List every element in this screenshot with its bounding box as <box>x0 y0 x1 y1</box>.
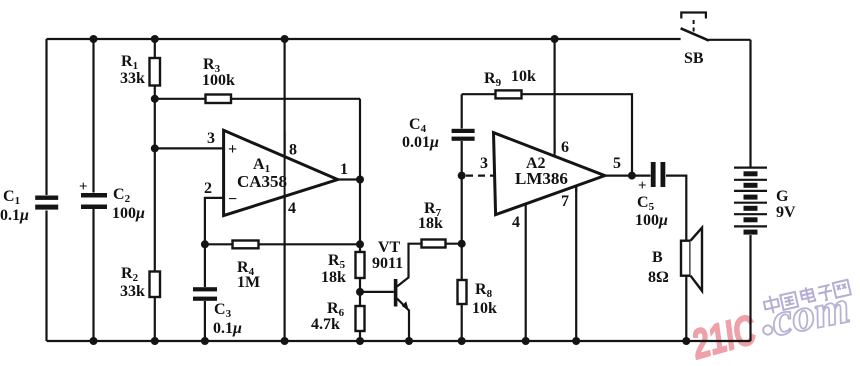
switch SB dashed stem <box>693 20 695 33</box>
svg-text:SB: SB <box>684 50 704 67</box>
node C4 pin3 <box>458 172 466 180</box>
svg-text:+: + <box>638 178 647 194</box>
node bottom rail C3 <box>201 337 209 345</box>
wire battery branch lower <box>749 235 751 341</box>
resistor R7 18k body <box>422 240 446 248</box>
svg-text:LM386: LM386 <box>515 169 568 188</box>
speaker B driver rectangle <box>681 241 691 276</box>
wire battery branch upper <box>749 40 751 167</box>
switch SB lever <box>681 28 709 40</box>
wire pin3 A2 dashed <box>466 175 494 177</box>
svg-text:1M: 1M <box>237 274 260 291</box>
node bottom rail C2 <box>90 337 98 345</box>
svg-text:100k: 100k <box>202 72 235 89</box>
node bottom rail R2 <box>151 337 159 345</box>
wire R3 feedback vertical to output <box>359 99 361 180</box>
node bottom rail pin7 A2 <box>572 337 580 345</box>
svg-text:VT: VT <box>378 239 401 256</box>
transistor Q1 VT 9011 base bar <box>394 279 398 307</box>
transistor emitter arrow <box>402 301 409 310</box>
svg-text:G: G <box>776 188 789 205</box>
capacitor C4 plates <box>452 129 475 133</box>
svg-text:R2: R2 <box>121 265 139 284</box>
svg-text:B: B <box>652 249 663 266</box>
node top rail pin6 line <box>551 35 559 43</box>
svg-text:0.01μ: 0.01μ <box>402 134 439 151</box>
svg-text:C5: C5 <box>637 194 655 213</box>
wire R1 R2 branch vertical <box>154 39 156 341</box>
capacitor C3 plates <box>193 287 217 291</box>
char 电 <box>800 286 816 303</box>
svg-text:9011: 9011 <box>372 255 403 272</box>
wire C5 to speaker <box>666 176 686 241</box>
node A2 output <box>628 172 636 180</box>
wire pin6 inside A2 <box>554 140 556 156</box>
svg-text:C1: C1 <box>3 188 20 207</box>
svg-text:4: 4 <box>288 200 296 217</box>
svg-text:1: 1 <box>340 161 348 178</box>
char 子 <box>817 285 834 302</box>
resistor R3 100k body <box>206 95 232 104</box>
capacitor C2 plates <box>81 193 107 198</box>
node R4 left <box>201 240 209 248</box>
node pin3 input <box>151 144 159 152</box>
svg-text:6: 6 <box>561 139 569 156</box>
svg-text:−: − <box>228 191 237 208</box>
node bottom rail pin4 A2 <box>522 337 530 345</box>
node top rail C2 <box>90 35 98 43</box>
char 中 <box>763 294 781 315</box>
svg-text:100μ: 100μ <box>635 212 668 229</box>
svg-text:8: 8 <box>289 142 297 159</box>
node R7 R8 C4 <box>458 240 466 248</box>
svg-text:7: 7 <box>561 193 569 210</box>
svg-text:R8: R8 <box>475 281 493 300</box>
node bottom rail R8 <box>458 337 466 345</box>
wire bottom rail <box>47 340 751 342</box>
wire C2 branch lower <box>92 209 94 341</box>
svg-text:R9: R9 <box>484 70 502 89</box>
node A1 output <box>356 176 364 184</box>
svg-text:10k: 10k <box>511 68 536 85</box>
wire A1 output to R5 R6 vertical <box>338 180 360 342</box>
svg-text:CA358: CA358 <box>237 172 287 191</box>
node base VT <box>356 288 364 296</box>
wire pin3 input A1 <box>155 147 224 149</box>
svg-text:2: 2 <box>204 180 212 197</box>
speaker B cone <box>691 228 703 291</box>
capacitor C5 plates <box>651 162 656 187</box>
resistor R1 33k body <box>150 58 161 86</box>
wire pin7 A2 to bottom rail <box>575 187 577 342</box>
node R1 bottom R3 <box>151 95 159 103</box>
wire top rail left of switch <box>47 38 681 40</box>
wire top rail right of switch <box>709 39 751 41</box>
wire C4 pin3 R8 vertical <box>461 94 463 341</box>
resistor R4 1M body <box>233 241 259 249</box>
op-amp U1 A1 CA358 triangle <box>224 130 338 215</box>
svg-text:33k: 33k <box>120 283 145 300</box>
op-amp U2 A2 LM386 triangle <box>494 133 605 215</box>
switch SB button cap <box>681 13 706 19</box>
wire R9 line and vertical to output <box>462 94 632 175</box>
svg-text:18k: 18k <box>321 269 346 286</box>
node bottom rail emitter <box>405 337 413 345</box>
resistor R2 33k body <box>150 272 161 298</box>
wire base of VT <box>360 291 394 293</box>
svg-text:3: 3 <box>480 155 488 172</box>
wire C3 to bottom rail <box>204 301 206 341</box>
wire pin4 A2 to bottom rail <box>525 205 527 342</box>
wire pin8 pin4 through A1 <box>284 132 286 214</box>
svg-text:100μ: 100μ <box>112 205 145 222</box>
watermark chinese text 中国电子网 (hand drawn) <box>763 278 851 315</box>
wire pin2 branch <box>205 198 224 287</box>
svg-text:C2: C2 <box>113 186 131 205</box>
svg-text:10k: 10k <box>472 300 497 317</box>
svg-text:3: 3 <box>207 130 215 147</box>
capacitor C1 plates <box>35 196 58 200</box>
svg-text:4.7k: 4.7k <box>311 316 340 333</box>
svg-text:0.1μ: 0.1μ <box>213 320 242 337</box>
node R4 right <box>356 240 364 248</box>
node bottom rail speaker <box>682 337 690 345</box>
battery G cell long plates <box>734 168 767 227</box>
watermark .com period <box>762 325 773 336</box>
char 国 <box>780 292 798 310</box>
char 网 <box>833 280 851 298</box>
wire A1 power pin8 pin4 vertical <box>284 39 286 341</box>
svg-text:C4: C4 <box>409 116 427 135</box>
svg-text:4: 4 <box>512 214 520 231</box>
wire pin6 A2 from top rail <box>553 39 555 153</box>
svg-text:C3: C3 <box>214 301 232 320</box>
node top rail R1 <box>151 35 159 43</box>
battery G cell short thick plates <box>744 171 758 234</box>
wire collector vertical and R7 line <box>397 244 462 287</box>
svg-text:5: 5 <box>613 155 621 172</box>
svg-text:9V: 9V <box>776 204 796 221</box>
resistor R9 10k body <box>496 90 522 98</box>
svg-text:+: + <box>228 141 237 158</box>
resistor R6 4.7k body <box>356 306 365 331</box>
svg-text:18k: 18k <box>418 215 443 232</box>
wire C2 branch upper <box>92 39 94 193</box>
wire pin7 inside A2 <box>575 187 577 193</box>
node bottom rail R6 <box>356 337 364 345</box>
node top rail pin8 line <box>281 35 289 43</box>
svg-text:com: com <box>767 281 853 346</box>
watermark .com letters <box>767 281 853 346</box>
wire A2 output to C5 <box>605 175 651 177</box>
resistor R8 10k body <box>458 280 467 304</box>
wire speaker to bottom rail <box>685 276 687 341</box>
wire left vertical lower (C1 to bottom rail) <box>45 211 47 342</box>
wire R3 feedback horizontal <box>155 98 360 100</box>
node bottom rail pin4 A1 <box>281 337 289 345</box>
svg-text:33k: 33k <box>120 70 145 87</box>
watermark 21IC <box>686 305 761 366</box>
wire left vertical upper (to C1) <box>45 39 47 195</box>
svg-text:8Ω: 8Ω <box>648 269 669 286</box>
svg-text:+: + <box>79 179 88 195</box>
wire R4 line <box>205 243 360 245</box>
svg-text:0.1μ: 0.1μ <box>0 207 29 224</box>
resistor R5 18k body <box>356 252 365 278</box>
wire emitter to bottom rail <box>397 299 409 342</box>
